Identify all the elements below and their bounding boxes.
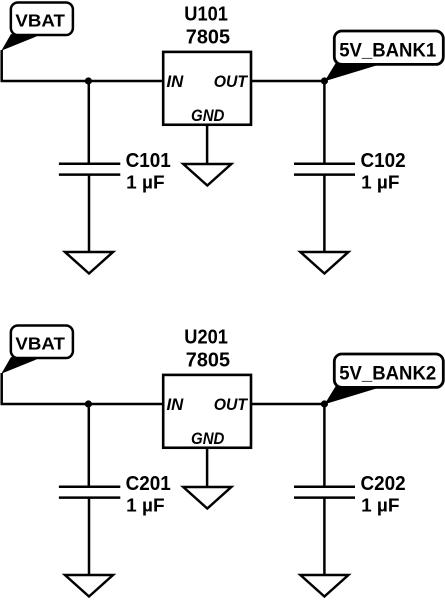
junction dot B (top right) <box>321 77 328 84</box>
svg-text:VBAT: VBAT <box>15 334 65 354</box>
svg-text:1 µF: 1 µF <box>126 496 164 517</box>
wire junction B down to C102 <box>323 81 326 164</box>
net flag 5V_BANK1 <box>325 31 444 81</box>
svg-text:C101: C101 <box>126 150 171 172</box>
wire VBAT net to IN pin <box>1 80 164 83</box>
wire VBAT flag to net (bottom) <box>0 373 3 404</box>
ground (C102) <box>300 252 348 274</box>
junction dot D (bottom right) <box>321 400 328 407</box>
svg-text:C102: C102 <box>361 150 406 172</box>
svg-text:7805: 7805 <box>186 26 230 48</box>
svg-text:VBAT: VBAT <box>15 11 65 31</box>
ground (C202) <box>300 575 348 597</box>
wire C101 to ground <box>88 175 91 252</box>
net flag 5V_BANK2 <box>325 354 444 404</box>
ground (U201 GND) <box>183 487 231 509</box>
wire VBAT flag to net <box>0 50 3 81</box>
wire C201 to ground <box>88 498 91 575</box>
svg-text:IN: IN <box>167 72 185 91</box>
wire junction A down to C101 <box>88 81 91 164</box>
svg-text:GND: GND <box>191 429 224 448</box>
svg-text:IN: IN <box>167 395 185 414</box>
svg-text:GND: GND <box>191 106 224 125</box>
capacitor C101 <box>59 164 120 175</box>
power flag VBAT (top) <box>1 2 73 50</box>
wire C202 to ground <box>323 498 326 575</box>
wire C102 to ground <box>323 175 326 252</box>
junction dot C (bottom left) <box>85 400 92 407</box>
svg-text:7805: 7805 <box>186 349 230 371</box>
ground (U101 GND) <box>183 164 231 186</box>
capacitor C202 <box>294 487 355 498</box>
ground (C101) <box>65 252 113 274</box>
ground (C201) <box>65 575 113 597</box>
svg-text:OUT: OUT <box>214 72 249 91</box>
wire VBAT net to IN pin (bottom) <box>1 403 164 406</box>
svg-text:OUT: OUT <box>214 395 249 414</box>
wire U101 GND pin <box>206 125 209 164</box>
svg-text:U201: U201 <box>184 327 228 349</box>
regulator U101 body <box>163 52 251 125</box>
wire OUT pin to junction <box>251 80 324 83</box>
regulator U201 body <box>163 375 251 448</box>
svg-text:5V_BANK2: 5V_BANK2 <box>339 364 436 385</box>
svg-text:C202: C202 <box>361 473 406 495</box>
wire junction D down to C202 <box>323 404 326 487</box>
power flag VBAT (bottom) <box>1 325 73 373</box>
svg-text:C201: C201 <box>126 473 171 495</box>
svg-text:5V_BANK1: 5V_BANK1 <box>339 41 436 62</box>
capacitor C201 <box>59 487 120 498</box>
wire U201 GND pin <box>206 448 209 487</box>
capacitor C102 <box>294 164 355 175</box>
wire junction C down to C201 <box>88 404 91 487</box>
junction dot A (top left) <box>85 77 92 84</box>
svg-text:1 µF: 1 µF <box>361 173 399 194</box>
svg-text:1 µF: 1 µF <box>361 496 399 517</box>
svg-text:U101: U101 <box>184 4 228 26</box>
svg-text:1 µF: 1 µF <box>126 173 164 194</box>
wire OUT pin to junction (bottom) <box>251 403 324 406</box>
